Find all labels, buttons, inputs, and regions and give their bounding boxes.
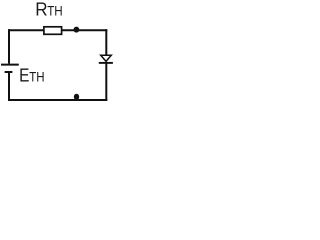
svg-text:R: R xyxy=(35,0,47,19)
svg-text:TH: TH xyxy=(47,2,63,18)
svg-text:TH: TH xyxy=(29,69,44,85)
svg-text:E: E xyxy=(19,64,29,86)
